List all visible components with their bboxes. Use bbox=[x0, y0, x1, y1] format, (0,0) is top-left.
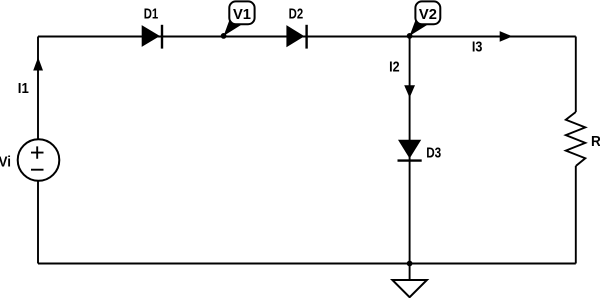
svg-text:I3: I3 bbox=[472, 40, 483, 56]
ground stub wire bbox=[409, 264, 411, 281]
wire right upper (top corner to R) bbox=[575, 37, 577, 113]
current arrow I2 (down) bbox=[404, 85, 415, 98]
current arrow I3 (right) bbox=[500, 31, 513, 42]
svg-text:D2: D2 bbox=[289, 7, 304, 23]
svg-text:I1: I1 bbox=[18, 81, 29, 97]
node V2 callout pointer bbox=[410, 20, 429, 36]
wire left upper (top corner down to Vi) bbox=[37, 37, 39, 140]
svg-text:V2: V2 bbox=[419, 7, 437, 23]
wire left lower (Vi to bottom corner) bbox=[37, 181, 39, 264]
node V1 dot bbox=[221, 33, 227, 39]
diode D2 cathode bar bbox=[305, 25, 307, 49]
ground node dot bbox=[407, 261, 413, 267]
svg-text:V1: V1 bbox=[233, 7, 251, 23]
svg-text:Vi: Vi bbox=[0, 154, 11, 170]
svg-text:R: R bbox=[591, 134, 600, 150]
svg-text:D3: D3 bbox=[426, 145, 441, 161]
ground triangle symbol bbox=[392, 280, 427, 297]
wire top (Vi+ to R top) bbox=[38, 36, 576, 38]
node V1 callout pointer bbox=[224, 20, 243, 36]
voltage source minus sign bbox=[31, 169, 44, 171]
diode D1 cathode bar bbox=[161, 25, 163, 49]
node V2 callout box bbox=[415, 1, 440, 24]
wire right lower (R to bottom corner) bbox=[575, 166, 577, 264]
svg-text:D1: D1 bbox=[144, 7, 159, 23]
resistor R zigzag bbox=[566, 112, 586, 166]
current arrow I1 (up) bbox=[33, 57, 43, 70]
diode D2 triangle bbox=[286, 25, 304, 47]
svg-text:I2: I2 bbox=[389, 60, 400, 76]
voltage source plus sign bbox=[31, 146, 44, 158]
node V2 dot bbox=[407, 33, 413, 39]
voltage source Vi circle bbox=[18, 139, 60, 181]
node V1 callout box bbox=[229, 1, 254, 24]
diode D1 triangle bbox=[142, 25, 160, 47]
diode D3 triangle (down) bbox=[398, 140, 421, 159]
wire bottom (Vi- to R bottom) bbox=[38, 263, 576, 265]
wire middle (node V2 down through D3 to ground node) bbox=[409, 37, 411, 264]
diode D3 cathode bar bbox=[398, 159, 422, 161]
